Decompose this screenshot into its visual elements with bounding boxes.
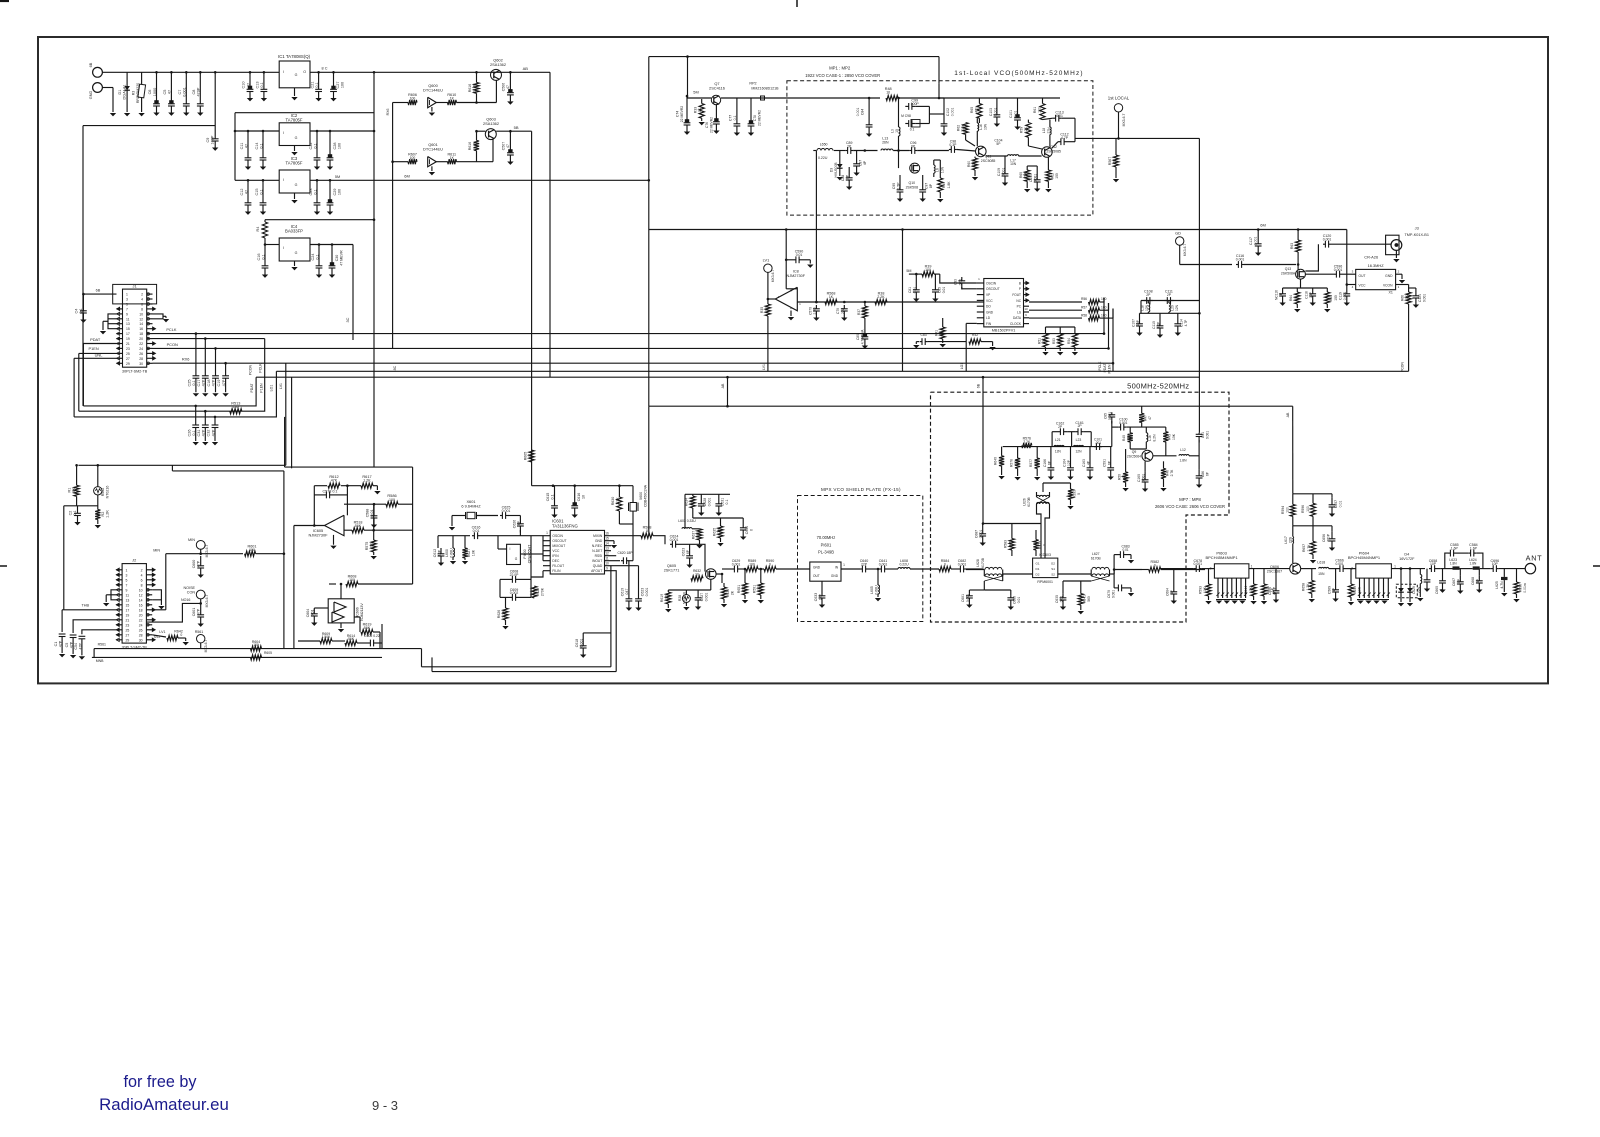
svg-text:22U: 22U bbox=[841, 307, 845, 314]
svg-text:.001: .001 bbox=[1095, 441, 1101, 445]
svg-text:10P: 10P bbox=[846, 174, 850, 181]
svg-text:D1: D1 bbox=[1036, 567, 1040, 571]
svg-text:30: 30 bbox=[139, 638, 143, 642]
svg-text:6P: 6P bbox=[1206, 471, 1210, 476]
svg-text:21: 21 bbox=[126, 618, 130, 622]
svg-text:0.001: 0.001 bbox=[1206, 431, 1210, 439]
svg-text:C119: C119 bbox=[1339, 292, 1343, 300]
svg-text:1.2K: 1.2K bbox=[1306, 583, 1310, 591]
svg-text:DATA: DATA bbox=[1013, 316, 1022, 320]
svg-text:100: 100 bbox=[1127, 435, 1131, 441]
svg-text:C657: C657 bbox=[1334, 500, 1338, 508]
svg-text:100: 100 bbox=[749, 562, 755, 566]
svg-text:10P: 10P bbox=[517, 520, 521, 527]
svg-text:LO1: LO1 bbox=[270, 385, 274, 392]
svg-text:0.001: 0.001 bbox=[580, 639, 584, 648]
svg-text:1: 1 bbox=[799, 302, 801, 306]
svg-text:1: 1 bbox=[1394, 565, 1396, 569]
svg-text:PL-349B: PL-349B bbox=[818, 550, 834, 555]
svg-text:C109: C109 bbox=[997, 168, 1001, 176]
svg-text:R57: R57 bbox=[1081, 305, 1087, 309]
svg-text:C570: C570 bbox=[808, 307, 812, 315]
svg-text:L618: L618 bbox=[1317, 561, 1325, 565]
svg-text:0.001: 0.001 bbox=[1194, 562, 1203, 566]
svg-text:10K: 10K bbox=[472, 549, 476, 556]
svg-text:C83: C83 bbox=[920, 333, 926, 337]
svg-text:C506: C506 bbox=[502, 83, 506, 91]
svg-text:L625: L625 bbox=[1495, 581, 1499, 589]
svg-text:14: 14 bbox=[605, 541, 609, 545]
svg-text:47K: 47K bbox=[331, 479, 338, 483]
svg-text:D1: D1 bbox=[118, 90, 122, 95]
svg-text:18: 18 bbox=[139, 608, 143, 612]
svg-text:0.001: 0.001 bbox=[966, 594, 970, 602]
svg-text:26N: 26N bbox=[882, 141, 889, 145]
svg-text:0.22U: 0.22U bbox=[899, 562, 909, 566]
svg-text:L650: L650 bbox=[820, 143, 828, 147]
svg-text:56K: 56K bbox=[348, 637, 355, 641]
svg-text:R50: R50 bbox=[1117, 474, 1121, 480]
svg-text:100: 100 bbox=[389, 498, 395, 502]
svg-text:QUAD: QUAD bbox=[593, 564, 603, 568]
svg-text:GD: GD bbox=[1175, 231, 1181, 236]
svg-text:0.001: 0.001 bbox=[1422, 294, 1426, 302]
svg-text:0.1: 0.1 bbox=[910, 128, 915, 132]
svg-text:C11: C11 bbox=[240, 143, 244, 150]
svg-text:L23: L23 bbox=[1076, 438, 1082, 442]
svg-text:1.6P: 1.6P bbox=[1470, 546, 1478, 550]
svg-text:R596: R596 bbox=[1301, 505, 1305, 513]
svg-text:DGA1A1: DGA1A1 bbox=[123, 85, 127, 100]
svg-text:4P: 4P bbox=[1332, 587, 1336, 592]
svg-text:VCC: VCC bbox=[552, 549, 560, 553]
svg-text:27: 27 bbox=[126, 357, 130, 361]
svg-text:1.2K: 1.2K bbox=[106, 510, 110, 518]
svg-text:C684: C684 bbox=[1166, 588, 1170, 596]
svg-text:0.001: 0.001 bbox=[951, 108, 955, 117]
svg-text:16: 16 bbox=[139, 327, 143, 331]
svg-text:R626: R626 bbox=[497, 610, 501, 618]
svg-text:R641: R641 bbox=[1083, 595, 1087, 603]
svg-text:C7: C7 bbox=[178, 90, 182, 95]
svg-text:0.1: 0.1 bbox=[260, 82, 264, 87]
svg-text:6M: 6M bbox=[1260, 223, 1266, 228]
svg-text:14: 14 bbox=[139, 598, 143, 602]
svg-text:OSCIN: OSCIN bbox=[552, 534, 563, 538]
svg-text:8 C: 8 C bbox=[322, 67, 328, 71]
svg-text:P1EN: P1EN bbox=[1108, 364, 1112, 373]
svg-text:C687: C687 bbox=[975, 530, 979, 538]
svg-text:10P: 10P bbox=[438, 549, 442, 556]
svg-text:C32: C32 bbox=[207, 430, 211, 437]
svg-text:4.7P: 4.7P bbox=[1061, 136, 1069, 140]
svg-text:NJM2730F: NJM2730F bbox=[787, 274, 806, 278]
svg-text:MPX VCO SHIELD PLATE (FX-1: MPX VCO SHIELD PLATE (FX-15) bbox=[821, 487, 901, 492]
svg-text:MIN: MIN bbox=[188, 538, 195, 542]
svg-text:1000: 1000 bbox=[153, 88, 157, 96]
svg-text:6K: 6K bbox=[72, 487, 76, 492]
svg-text:C28: C28 bbox=[333, 143, 337, 150]
svg-text:5: 5 bbox=[126, 578, 128, 582]
svg-text:1: 1 bbox=[546, 531, 548, 535]
svg-text:0.1: 0.1 bbox=[725, 500, 729, 505]
svg-text:R58: R58 bbox=[1081, 313, 1087, 317]
svg-text:for free by: for free by bbox=[124, 1073, 198, 1091]
svg-text:CDB450C24A: CDB450C24A bbox=[644, 484, 648, 507]
svg-text:MMZ1608D121B: MMZ1608D121B bbox=[751, 87, 779, 91]
svg-text:8C: 8C bbox=[393, 365, 397, 370]
svg-text:C630: C630 bbox=[745, 526, 749, 534]
svg-text:C74: C74 bbox=[676, 111, 680, 117]
svg-text:5M: 5M bbox=[906, 269, 911, 273]
svg-text:NT0216: NT0216 bbox=[683, 592, 687, 604]
svg-text:R578: R578 bbox=[1010, 459, 1014, 467]
svg-text:MX3-6.7: MX3-6.7 bbox=[1183, 244, 1187, 257]
svg-text:G: G bbox=[295, 73, 298, 77]
svg-text:47: 47 bbox=[1148, 416, 1152, 420]
svg-text:100: 100 bbox=[1038, 107, 1042, 113]
svg-text:J2: J2 bbox=[132, 558, 136, 563]
svg-text:0: 0 bbox=[261, 228, 265, 230]
svg-text:RX6: RX6 bbox=[386, 109, 390, 116]
svg-text:0.001: 0.001 bbox=[1034, 174, 1038, 182]
svg-text:FOUT: FOUT bbox=[1012, 293, 1021, 297]
svg-text:C107: C107 bbox=[1131, 319, 1135, 327]
svg-text:10: 10 bbox=[605, 561, 609, 565]
svg-text:CON: CON bbox=[187, 591, 196, 595]
svg-text:2P: 2P bbox=[1167, 293, 1172, 297]
svg-text:47P: 47P bbox=[59, 640, 63, 647]
svg-text:G: G bbox=[295, 136, 298, 140]
svg-text:0.001: 0.001 bbox=[705, 593, 709, 602]
svg-text:1.6P: 1.6P bbox=[1451, 546, 1459, 550]
svg-text:PCLK: PCLK bbox=[259, 363, 263, 373]
svg-text:0.1: 0.1 bbox=[551, 495, 555, 500]
svg-text:1: 1 bbox=[978, 277, 980, 281]
svg-text:47: 47 bbox=[168, 90, 172, 94]
svg-text:47P: 47P bbox=[197, 608, 201, 615]
svg-text:6B: 6B bbox=[977, 383, 981, 388]
svg-text:4.7N: 4.7N bbox=[1500, 581, 1504, 589]
svg-text:2: 2 bbox=[141, 568, 143, 572]
svg-text:2SC5085: 2SC5085 bbox=[1046, 150, 1061, 154]
svg-text:0.1: 0.1 bbox=[262, 254, 266, 259]
svg-text:6P: 6P bbox=[1476, 578, 1480, 583]
svg-text:TA7805F: TA7805F bbox=[286, 118, 303, 123]
svg-text:47: 47 bbox=[245, 144, 249, 148]
svg-text:6: 6 bbox=[141, 578, 143, 582]
svg-text:C91: C91 bbox=[1201, 432, 1205, 438]
svg-text:C626: C626 bbox=[513, 520, 517, 528]
svg-text:C9: C9 bbox=[206, 138, 210, 143]
svg-text:R657: R657 bbox=[1302, 544, 1306, 552]
svg-text:AFOUT: AFOUT bbox=[591, 569, 602, 573]
svg-text:0.01m: 0.01m bbox=[1523, 583, 1527, 593]
svg-text:100: 100 bbox=[1334, 295, 1338, 301]
svg-text:C86: C86 bbox=[1201, 471, 1205, 477]
svg-text:C22: C22 bbox=[309, 143, 313, 150]
svg-text:0.001: 0.001 bbox=[1254, 237, 1258, 246]
svg-text:23: 23 bbox=[126, 347, 130, 351]
svg-text:C612: C612 bbox=[433, 549, 437, 557]
svg-text:GND: GND bbox=[831, 574, 839, 578]
svg-text:IC8: IC8 bbox=[793, 270, 799, 274]
svg-text:R60: R60 bbox=[967, 161, 971, 167]
svg-text:NOISE: NOISE bbox=[184, 586, 196, 590]
svg-text:47: 47 bbox=[528, 454, 532, 458]
svg-text:2.2K: 2.2K bbox=[877, 295, 885, 299]
svg-text:MNB: MNB bbox=[96, 659, 104, 663]
svg-text:CR-A26: CR-A26 bbox=[1364, 255, 1378, 260]
svg-text:100: 100 bbox=[925, 268, 931, 272]
svg-text:22 MEVR2: 22 MEVR2 bbox=[709, 117, 713, 133]
svg-text:10: 10 bbox=[139, 312, 143, 316]
svg-text:C1: C1 bbox=[54, 642, 58, 647]
svg-text:C160: C160 bbox=[1137, 474, 1141, 482]
svg-text:C569: C569 bbox=[1328, 586, 1332, 594]
svg-text:R65: R65 bbox=[1329, 295, 1333, 301]
svg-text:560: 560 bbox=[696, 532, 700, 538]
svg-text:TMP-K01X-B1: TMP-K01X-B1 bbox=[1404, 233, 1428, 237]
svg-text:12N: 12N bbox=[1075, 449, 1082, 453]
svg-text:C16: C16 bbox=[257, 254, 261, 261]
svg-text:1.2P: 1.2P bbox=[1157, 321, 1161, 329]
svg-text:L617: L617 bbox=[1284, 536, 1288, 544]
svg-text:47P: 47P bbox=[211, 429, 215, 436]
svg-text:21: 21 bbox=[126, 342, 130, 346]
svg-text:0.001: 0.001 bbox=[879, 562, 888, 566]
svg-text:C101: C101 bbox=[1009, 110, 1013, 118]
svg-text:C26: C26 bbox=[187, 430, 191, 437]
svg-text:1st-Local VCO(500MHz-520MHz): 1st-Local VCO(500MHz-520MHz) bbox=[954, 70, 1083, 77]
svg-text:6M: 6M bbox=[404, 174, 410, 179]
svg-text:1K: 1K bbox=[450, 156, 455, 160]
svg-text:AB: AB bbox=[523, 66, 529, 71]
svg-text:0.001: 0.001 bbox=[708, 498, 712, 507]
svg-text:R66: R66 bbox=[1401, 295, 1405, 301]
svg-text:BPCH45M4NMP1: BPCH45M4NMP1 bbox=[1205, 555, 1238, 560]
svg-text:5B: 5B bbox=[514, 125, 519, 130]
svg-text:2SA1362: 2SA1362 bbox=[483, 121, 499, 126]
svg-text:10P: 10P bbox=[1309, 291, 1313, 298]
svg-text:1K: 1K bbox=[450, 97, 455, 101]
svg-text:L6: L6 bbox=[936, 168, 940, 172]
svg-text:1: 1 bbox=[126, 568, 128, 572]
svg-text:25: 25 bbox=[126, 352, 130, 356]
svg-text:0.001: 0.001 bbox=[1119, 421, 1127, 425]
svg-text:47P: 47P bbox=[79, 643, 83, 650]
svg-text:PDAT: PDAT bbox=[250, 383, 254, 393]
svg-text:10N: 10N bbox=[940, 166, 944, 173]
svg-text:100: 100 bbox=[1101, 305, 1107, 309]
svg-text:20: 20 bbox=[139, 613, 143, 617]
svg-text:VP: VP bbox=[986, 293, 990, 297]
svg-text:2.2U: 2.2U bbox=[813, 307, 817, 315]
svg-text:100: 100 bbox=[1306, 506, 1310, 512]
svg-text:C24: C24 bbox=[311, 254, 315, 261]
svg-text:29: 29 bbox=[126, 362, 130, 366]
svg-text:S2: S2 bbox=[1051, 573, 1055, 577]
svg-text:120: 120 bbox=[665, 595, 669, 601]
svg-text:C85: C85 bbox=[938, 287, 942, 293]
svg-text:0.001: 0.001 bbox=[993, 108, 997, 117]
svg-text:C31: C31 bbox=[197, 430, 201, 437]
svg-text:R59: R59 bbox=[1019, 127, 1023, 133]
svg-text:FIN: FIN bbox=[986, 322, 992, 326]
svg-text:0.1: 0.1 bbox=[733, 116, 737, 121]
svg-text:MB1502PFV1: MB1502PFV1 bbox=[992, 329, 1016, 333]
svg-text:30PLT-SM2-TB: 30PLT-SM2-TB bbox=[122, 370, 148, 374]
svg-text:R644: R644 bbox=[1244, 586, 1248, 594]
svg-text:C18: C18 bbox=[207, 380, 211, 387]
svg-text:0.1: 0.1 bbox=[192, 380, 196, 385]
svg-text:R616: R616 bbox=[468, 84, 472, 92]
svg-text:100: 100 bbox=[410, 97, 416, 101]
svg-text:3: 3 bbox=[1352, 270, 1354, 274]
svg-text:C25: C25 bbox=[188, 380, 192, 387]
svg-text:6: 6 bbox=[141, 303, 143, 307]
svg-text:R635: R635 bbox=[712, 528, 716, 536]
svg-text:R3: R3 bbox=[132, 91, 136, 96]
svg-text:MIXIN: MIXIN bbox=[593, 534, 603, 538]
svg-text:47P: 47P bbox=[222, 379, 226, 386]
svg-text:13: 13 bbox=[126, 598, 130, 602]
svg-text:GND: GND bbox=[986, 310, 994, 314]
svg-text:LV1: LV1 bbox=[279, 383, 283, 389]
svg-text:100: 100 bbox=[249, 548, 255, 552]
svg-text:2P: 2P bbox=[1146, 293, 1151, 297]
svg-text:S1: S1 bbox=[1051, 567, 1055, 571]
svg-text:LV1: LV1 bbox=[159, 630, 165, 634]
svg-text:G: G bbox=[295, 183, 298, 187]
svg-text:47: 47 bbox=[245, 190, 249, 194]
svg-text:NT0216: NT0216 bbox=[106, 486, 110, 499]
svg-text:8.2N: 8.2N bbox=[1153, 434, 1157, 442]
svg-text:10K: 10K bbox=[1042, 337, 1046, 344]
svg-text:10: 10 bbox=[886, 91, 890, 95]
svg-text:16: 16 bbox=[139, 603, 143, 607]
svg-text:MX3-6.7: MX3-6.7 bbox=[204, 639, 208, 652]
svg-text:C27: C27 bbox=[336, 82, 340, 89]
svg-text:C14: C14 bbox=[255, 143, 259, 150]
svg-text:PDAT: PDAT bbox=[1103, 364, 1107, 373]
svg-text:C2: C2 bbox=[68, 511, 72, 516]
svg-text:R562: R562 bbox=[101, 488, 105, 497]
svg-text:0.01: 0.01 bbox=[311, 610, 315, 617]
svg-text:R40: R40 bbox=[1122, 435, 1126, 441]
svg-text:C5: C5 bbox=[65, 643, 69, 648]
svg-text:10K: 10K bbox=[764, 306, 768, 313]
svg-text:0: 0 bbox=[944, 562, 946, 566]
svg-text:1st LOCAL: 1st LOCAL bbox=[1108, 96, 1130, 101]
svg-text:1: 1 bbox=[1398, 285, 1400, 289]
svg-text:470: 470 bbox=[974, 107, 978, 113]
svg-text:VCC: VCC bbox=[1359, 284, 1367, 288]
svg-text:C620 18P: C620 18P bbox=[617, 551, 633, 555]
svg-text:C667: C667 bbox=[1452, 578, 1456, 586]
svg-text:C623: C623 bbox=[682, 548, 686, 556]
svg-text:2: 2 bbox=[141, 293, 143, 297]
svg-text:26: 26 bbox=[139, 628, 143, 632]
svg-text:26: 26 bbox=[139, 352, 143, 356]
svg-text:70.00MHz: 70.00MHz bbox=[817, 535, 836, 540]
svg-text:0.002: 0.002 bbox=[510, 591, 519, 595]
svg-text:10N: 10N bbox=[1010, 162, 1017, 166]
svg-text:OUT: OUT bbox=[1359, 274, 1366, 278]
svg-text:C616: C616 bbox=[577, 493, 581, 502]
svg-text:B: B bbox=[1019, 281, 1021, 285]
svg-text:9: 9 bbox=[1025, 313, 1027, 317]
svg-text:C635: C635 bbox=[1055, 595, 1059, 603]
svg-text:15: 15 bbox=[605, 536, 609, 540]
svg-text:C681: C681 bbox=[961, 594, 965, 602]
svg-text:C29: C29 bbox=[333, 189, 337, 196]
svg-text:C679: C679 bbox=[1107, 590, 1111, 598]
svg-text:2SC1367: 2SC1367 bbox=[1267, 570, 1282, 574]
svg-text:0.3P: 0.3P bbox=[949, 143, 957, 147]
svg-text:TA31136FNG: TA31136FNG bbox=[552, 523, 579, 528]
svg-text:0.001: 0.001 bbox=[979, 530, 983, 539]
svg-text:C103: C103 bbox=[989, 108, 993, 116]
svg-text:RPM6001: RPM6001 bbox=[1037, 580, 1053, 584]
svg-text:470P: 470P bbox=[197, 87, 201, 96]
svg-text:0.01: 0.01 bbox=[1339, 501, 1343, 508]
svg-text:16: 16 bbox=[605, 531, 609, 535]
svg-text:7: 7 bbox=[126, 583, 128, 587]
svg-text:1K: 1K bbox=[1295, 243, 1299, 248]
svg-text:0.001: 0.001 bbox=[1343, 292, 1347, 301]
svg-text:NJM2730F: NJM2730F bbox=[308, 533, 328, 538]
svg-text:OSCOUT: OSCOUT bbox=[986, 287, 1000, 291]
svg-text:O: O bbox=[303, 70, 306, 74]
svg-text:22K: 22K bbox=[972, 160, 976, 167]
svg-text:6P: 6P bbox=[686, 549, 690, 554]
svg-text:Q605: Q605 bbox=[667, 564, 676, 568]
svg-text:0.01: 0.01 bbox=[1017, 597, 1021, 604]
svg-text:VCC: VCC bbox=[986, 299, 993, 303]
svg-text:C618: C618 bbox=[575, 639, 579, 647]
svg-text:10: 10 bbox=[689, 500, 693, 504]
svg-text:8: 8 bbox=[141, 307, 143, 311]
svg-text:10: 10 bbox=[895, 129, 899, 133]
svg-text:ANT: ANT bbox=[1526, 554, 1543, 563]
svg-text:16V172F: 16V172F bbox=[1399, 557, 1415, 561]
svg-text:10P: 10P bbox=[1430, 562, 1437, 566]
svg-text:DTC144EU: DTC144EU bbox=[423, 147, 443, 152]
svg-text:D4: D4 bbox=[1404, 553, 1409, 557]
svg-text:R37: R37 bbox=[857, 309, 861, 315]
svg-text:13: 13 bbox=[126, 322, 130, 326]
svg-text:0: 0 bbox=[180, 633, 182, 637]
svg-text:47: 47 bbox=[506, 85, 510, 89]
svg-text:J3: J3 bbox=[1415, 226, 1419, 231]
svg-text:C109: C109 bbox=[1029, 174, 1033, 182]
svg-text:17: 17 bbox=[126, 332, 130, 336]
svg-text:9: 9 bbox=[126, 312, 128, 316]
svg-text:0: 0 bbox=[769, 562, 771, 566]
svg-text:C121: C121 bbox=[1418, 294, 1422, 302]
svg-text:47P: 47P bbox=[202, 429, 206, 436]
svg-text:10K: 10K bbox=[1405, 294, 1409, 301]
svg-text:100P: 100P bbox=[211, 135, 215, 144]
svg-text:10P: 10P bbox=[1457, 578, 1461, 585]
svg-text:D3: D3 bbox=[830, 168, 834, 172]
svg-text:10K: 10K bbox=[1057, 337, 1061, 344]
svg-text:I: I bbox=[283, 178, 284, 182]
svg-text:MIXOUT: MIXOUT bbox=[552, 544, 565, 548]
svg-text:IN: IN bbox=[835, 566, 839, 570]
svg-text:HVU300B: HVU300B bbox=[834, 162, 838, 178]
